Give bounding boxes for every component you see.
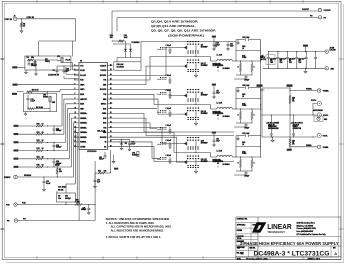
connector J13 VOSNS-: [318, 145, 330, 149]
ground snubber phase 1: [237, 40, 240, 45]
svg-text:C29 10uF: C29 10uF: [280, 59, 286, 61]
wire FCB to IC: [64, 76, 79, 79]
svg-text:35V: 35V: [280, 60, 283, 62]
wire IC bottom to D2: [110, 139, 130, 142]
resistor R26 1k: [236, 142, 261, 146]
svg-text:10: 10: [42, 156, 44, 158]
svg-text:J1: J1: [14, 15, 16, 17]
notes heading: [106, 217, 170, 221]
svg-text:SENSE2-: SENSE2-: [80, 127, 87, 129]
svg-text:R27: R27: [242, 55, 245, 57]
svg-text:BG3: BG3: [103, 123, 106, 125]
ground snubber phase 3: [237, 136, 240, 141]
svg-text:Si7960DP: Si7960DP: [201, 161, 208, 163]
capacitor C9 VCC bypass: [53, 68, 59, 75]
wire bundle lower gates: [113, 109, 235, 162]
capacitor C21 snubber: [236, 133, 261, 157]
capacitor C across SENSE3+: [53, 158, 62, 167]
wire sense feedback phase 3: [234, 171, 246, 175]
svg-text:R14: R14: [37, 155, 40, 158]
svg-text:Q6 Q8: Q6 Q8: [201, 111, 206, 113]
svg-text:TG3: TG3: [103, 127, 106, 129]
connector J5 VIN: [325, 48, 336, 54]
inductor L3 1uH: [213, 150, 233, 163]
wire 5V node A: [112, 40, 126, 48]
dwg no text: [250, 248, 330, 258]
svg-text:R10: R10: [37, 124, 40, 126]
connector J9 VOUT+: [311, 100, 324, 112]
note line 4: [106, 236, 161, 239]
svg-text:CLKOUT: CLKOUT: [302, 9, 310, 11]
svg-text:2. INSTALL SHUNTS FOR JP1-JP7: 2. INSTALL SHUNTS FOR JP1-JP7 PIN 2 AND …: [106, 236, 161, 239]
svg-text:VOUT+: VOUT+: [311, 100, 316, 102]
svg-text:RUN/SS: RUN/SS: [80, 142, 86, 144]
wire sense feedback phase 2: [234, 123, 246, 127]
svg-text:10uF: 10uF: [131, 144, 135, 146]
svg-text:1000pF: 1000pF: [65, 198, 71, 200]
wire phase 1 SW drop: [211, 57, 217, 62]
svg-text:R3: R3: [27, 57, 29, 59]
svg-text:10k: 10k: [104, 170, 107, 172]
svg-text:R11: R11: [37, 132, 40, 134]
svg-text:C35: C35: [230, 44, 233, 46]
svg-text:TG1: TG1: [103, 80, 106, 82]
svg-text:C31 10uF: C31 10uF: [298, 59, 304, 61]
svg-text:CLKOUT: CLKOUT: [324, 10, 332, 12]
svg-text:TDK: TDK: [289, 62, 292, 64]
connector J2 RUN/SS: [4, 175, 17, 179]
capacitor output bank left: [266, 115, 280, 137]
svg-text:JP1: JP1: [57, 56, 60, 58]
svg-text:C20 0.1uF: C20 0.1uF: [242, 85, 249, 87]
svg-text:0.1uF: 0.1uF: [46, 183, 50, 185]
svg-text:Si7960DP: Si7960DP: [201, 95, 208, 97]
capacitor C20 snubber: [236, 85, 261, 109]
svg-text:10: 10: [292, 142, 294, 144]
capacitor C16: [128, 139, 135, 148]
svg-text:C13 220pF: C13 220pF: [58, 187, 66, 189]
net label AVP: [114, 168, 118, 170]
inductor L2 1uH: [213, 102, 233, 115]
capacitor output bank right: [291, 115, 303, 137]
resistor R24 10K label: [110, 34, 124, 42]
resistor R3 10k: [27, 57, 34, 61]
resistor R28 0.015 label: [242, 103, 246, 107]
net label VCC freq: [12, 66, 25, 68]
svg-text:1000pF: 1000pF: [56, 147, 62, 149]
svg-text:Phone: (408)432-1900: Phone: (408)432-1900: [297, 227, 316, 230]
svg-text:10k: 10k: [31, 57, 34, 59]
wire PG: [117, 16, 318, 31]
resistor RS1 sense: [238, 61, 242, 75]
ground freq box B: [35, 67, 38, 75]
svg-text:R: R: [238, 163, 239, 165]
svg-text:+C27: +C27: [260, 56, 264, 58]
connector J8 VOSNS+: [318, 89, 330, 93]
capacitor input bank: [260, 51, 325, 69]
resistor R24 1k: [236, 45, 261, 50]
ground VIN rail stub: [214, 42, 217, 48]
svg-text:VOUT+: VOUT+: [323, 115, 328, 117]
svg-text:C28 10uF: C28 10uF: [270, 59, 276, 61]
svg-text:C16: C16: [56, 145, 59, 147]
net label and resistor row SENSE3+: [14, 155, 70, 159]
svg-text:51: 51: [23, 25, 25, 27]
svg-text:FREQ: FREQ: [45, 61, 50, 63]
svg-text:10uF: 10uF: [216, 44, 220, 46]
svg-text:10: 10: [42, 148, 44, 150]
wire SYNC IN to bus: [17, 18, 76, 19]
svg-text:10: 10: [42, 124, 44, 126]
wire phase 2 output: [232, 108, 261, 109]
connector J6 CLKOUT: [318, 8, 331, 12]
ground below C12: [42, 188, 45, 191]
svg-text:Si7960DP: Si7960DP: [201, 143, 208, 145]
svg-text:TECHNOLOGY: TECHNOLOGY: [267, 230, 285, 234]
resistor R1 51: [21, 19, 26, 30]
svg-text:U2 LT1121: U2 LT1121: [117, 66, 124, 68]
svg-text:VRNG: VRNG: [43, 96, 49, 98]
svg-text:R29: R29: [242, 151, 245, 153]
wire phase 3 SW drop: [211, 153, 217, 158]
svg-text:10uF: 10uF: [216, 140, 220, 142]
svg-text:ALL CAPACITORS ARE IN MICROFAR: ALL CAPACITORS ARE IN MICROFARADS, 0603.: [111, 226, 172, 229]
net label VCC pullup: [55, 164, 59, 166]
ground snubber phase 2: [237, 88, 240, 93]
svg-text:10k: 10k: [59, 171, 62, 173]
wire bus down to PLL circuit: [75, 19, 77, 41]
ground below R1: [20, 30, 23, 33]
ground IC area C: [128, 148, 131, 151]
wire FCB row: [17, 161, 95, 205]
svg-text:5.5V-28V: 5.5V-28V: [330, 49, 336, 51]
component box ITH network: [57, 193, 76, 202]
wire bundle IC left fan: [62, 94, 79, 220]
capacitor C23: [99, 152, 107, 161]
ground IC area A: [112, 155, 115, 163]
wire sense feedback phase 1: [234, 75, 246, 79]
svg-text:10uF: 10uF: [230, 45, 234, 47]
svg-text:C30 10uF: C30 10uF: [289, 59, 295, 61]
transistor pair phase 1 (Q1): [179, 41, 211, 77]
svg-text:PGOOD: PGOOD: [101, 70, 108, 72]
svg-text:1000pF: 1000pF: [244, 80, 249, 82]
svg-text:REV: REV: [333, 248, 336, 250]
jumper JP1 FREQSET: [57, 56, 71, 63]
logo LINEAR text: [267, 222, 292, 234]
capacitor boost bypass clusters: [157, 45, 172, 164]
svg-text:R12: R12: [37, 140, 40, 142]
svg-text:LTC3731CG: LTC3731CG: [87, 151, 97, 153]
svg-text:VOUT-: VOUT-: [323, 136, 328, 138]
logo Linear Technology mark: [252, 222, 266, 232]
connector J14 VIN return: [325, 67, 335, 71]
svg-text:SYNC IN: SYNC IN: [27, 17, 35, 19]
svg-text:Milpitas, CA 95035: Milpitas, CA 95035: [297, 224, 314, 227]
capacitor C17 lower: [94, 173, 101, 185]
range select sub box: [24, 93, 57, 112]
svg-text:TITLE:: TITLE:: [237, 238, 242, 240]
svg-text:DC498A-3 * LTC3731CG: DC498A-3 * LTC3731CG: [254, 251, 330, 258]
transistor pair phase 2 (Q4): [179, 89, 211, 125]
jumper JP6 label: [132, 152, 139, 157]
net label INT FREQ: [45, 59, 50, 63]
svg-text:R28: R28: [242, 103, 245, 105]
svg-text:L1 1uH: L1 1uH: [217, 54, 223, 56]
svg-text:SW1: SW1: [103, 84, 106, 86]
connector J1 SYNC IN: [5, 15, 17, 21]
resistor R29 0.015 label: [242, 151, 246, 155]
svg-text:Q4: Q4: [201, 91, 203, 94]
svg-text:1k: 1k: [242, 96, 244, 98]
wire phase 3 output: [232, 156, 261, 157]
capacitor C19 snubber: [236, 37, 261, 61]
svg-text:R: R: [238, 67, 239, 69]
svg-text:10: 10: [42, 165, 44, 167]
svg-text:10uF: 10uF: [124, 37, 128, 39]
svg-text:C33: C33: [124, 35, 127, 37]
svg-text:C 0.1uF: C 0.1uF: [166, 125, 172, 127]
svg-text:0.015: 0.015: [242, 57, 246, 59]
svg-text:SENSE3-: SENSE3-: [80, 137, 87, 139]
wire VOUT vertical: [289, 87, 290, 148]
net label and resistor row SENSE1-: [14, 132, 64, 135]
capacitor C11 in box: [27, 95, 35, 108]
svg-text:R: R: [238, 115, 239, 117]
wire VOSNS+ line: [289, 89, 317, 91]
inductor L1 1uH: [213, 54, 233, 67]
svg-text:Q1,Q4, Q10 ARE Si7960DP,: Q1,Q4, Q10 ARE Si7960DP,: [151, 20, 198, 24]
svg-text:C: C: [254, 115, 255, 117]
label ILIM wire: [97, 130, 106, 133]
resistor R5 10.0k: [27, 90, 39, 93]
title row: [236, 237, 341, 241]
wire VOSNS- line: [289, 145, 317, 147]
svg-text:C 0.1uF: C 0.1uF: [166, 155, 172, 157]
net label VIN bank: [303, 45, 308, 53]
ground input bank: [304, 68, 307, 73]
svg-text:OS-CON: OS-CON: [260, 59, 266, 61]
title block grid: [236, 217, 341, 260]
wires in freq box: [28, 59, 72, 67]
resistor R27 0.015 label: [242, 55, 246, 59]
capacitor VIN decoupling column: [212, 36, 220, 147]
svg-text:C 0.1uF: C 0.1uF: [166, 140, 172, 142]
wire PLLIN to IC: [71, 63, 79, 70]
capacitor C15 on FCB: [81, 205, 90, 215]
resistor R12 10k: [98, 150, 111, 174]
svg-text:Q3 Q7: Q3 Q7: [201, 63, 206, 65]
address text block: [297, 222, 326, 236]
svg-text:BG2: BG2: [103, 118, 106, 120]
wire into range box: [33, 90, 74, 96]
svg-text:SENSE1-: SENSE1-: [80, 118, 87, 120]
diode D2 B340A: [217, 114, 231, 120]
connector J4 PGOOD: [7, 219, 18, 223]
capacitor C across SENSE2+: [53, 142, 62, 151]
connector J7 PG: [318, 16, 326, 20]
svg-text:SHEET 1 OF 2: SHEET 1 OF 2: [308, 259, 321, 261]
svg-text:R13: R13: [37, 148, 40, 150]
net label and resistor row SENSE1+: [14, 124, 63, 127]
wire VCC rail to IC: [57, 65, 79, 67]
svg-text:C21 0.1uF: C21 0.1uF: [242, 133, 249, 135]
svg-text:Q1: Q1: [201, 44, 203, 46]
diode D1 B340A: [217, 66, 231, 72]
svg-text:1000pF: 1000pF: [81, 209, 86, 211]
svg-text:10: 10: [42, 132, 44, 134]
svg-text:GND: GND: [324, 119, 327, 121]
svg-text:R8 10k: R8 10k: [58, 189, 64, 191]
size cell: [237, 248, 244, 257]
svg-text:35V: 35V: [270, 60, 273, 62]
net label and resistor row SENSE2+: [14, 140, 66, 143]
wire 5V node B: [113, 43, 130, 48]
svg-text:R15: R15: [37, 165, 40, 167]
rev cell: [333, 248, 337, 257]
svg-text:RUN/SS: RUN/SS: [4, 177, 11, 179]
svg-text:C18: C18: [56, 161, 59, 163]
connector J10 VOUT+ 2: [317, 113, 328, 117]
capacitor C8 1000pF: [28, 60, 37, 67]
svg-text:R27: R27: [292, 140, 295, 142]
svg-text:R20: R20: [76, 200, 79, 202]
dwg row grid: [236, 246, 341, 257]
svg-text:10uF: 10uF: [216, 92, 220, 94]
svg-text:1000pF: 1000pF: [244, 176, 249, 178]
wire PLLLPF to IC: [48, 67, 79, 77]
svg-text:35V: 35V: [289, 60, 292, 62]
svg-text:SYNC IN: SYNC IN: [5, 19, 13, 21]
ground IC area B: [120, 147, 123, 150]
wire phase 2 SW drop: [211, 105, 217, 110]
svg-text:Si7960DP: Si7960DP: [201, 47, 208, 49]
svg-text:1uF: 1uF: [97, 182, 100, 184]
wire VIN rail top: [141, 41, 236, 58]
wire ITH to IC: [66, 184, 75, 205]
wire phase 1 output: [232, 60, 261, 61]
svg-text:VOSNS+: VOSNS+: [306, 89, 312, 91]
net label VCC left: [12, 92, 24, 95]
svg-text:L3 1uH: L3 1uH: [217, 150, 223, 152]
svg-text:1uF: 1uF: [66, 70, 69, 72]
ground below C17: [94, 185, 97, 188]
wire VOUT- bus: [262, 136, 317, 137]
svg-text:TDK: TDK: [280, 62, 283, 64]
svg-text:BOOST3: BOOST3: [100, 137, 107, 139]
note text transistor types: [151, 20, 216, 38]
capacitor CS1 sense: [241, 75, 253, 82]
frequency select sub box: [25, 56, 71, 70]
wire output rail: [260, 41, 264, 152]
svg-text:J5 VIN: J5 VIN: [330, 48, 335, 50]
svg-text:1k: 1k: [242, 144, 244, 146]
svg-text:VOSNS+: VOSNS+: [323, 91, 329, 93]
capacitor C13 ITH: [57, 187, 66, 194]
svg-text:10: 10: [292, 99, 294, 101]
svg-text:C: C: [254, 163, 255, 165]
wire VOUT+ bus: [261, 114, 316, 115]
capacitor CS2 sense: [241, 123, 253, 130]
label U1 value: [87, 151, 97, 153]
regulator 5V sub box: [114, 62, 141, 70]
wire CLKOUT: [112, 9, 318, 34]
svg-text:BG1: BG1: [103, 108, 106, 110]
svg-text:Q10: Q10: [201, 140, 204, 142]
svg-text:1. ALL RESISTORS ARE IN OHMS,: 1. ALL RESISTORS ARE IN OHMS, 0603.: [106, 222, 155, 225]
svg-text:C23: C23: [99, 157, 102, 159]
svg-text:1000pF: 1000pF: [56, 130, 62, 132]
svg-text:Q3, Q6, Q7, Q8, Q9, Q12 ARE Si: Q3, Q6, Q7, Q8, Q9, Q12 ARE Si7960DP.: [151, 29, 216, 33]
svg-text:DRVCC: DRVCC: [101, 104, 107, 106]
svg-text:1000pF: 1000pF: [244, 128, 249, 130]
net label VOUT+ top: [287, 84, 293, 86]
svg-text:C26: C26: [83, 207, 86, 209]
svg-text:Si7960DP: Si7960DP: [201, 113, 208, 115]
svg-text:SIZE: SIZE: [237, 248, 240, 250]
note line 1: [106, 222, 155, 225]
resistor R25 1k: [236, 94, 261, 98]
svg-text:GRP1: GRP1: [80, 84, 84, 86]
svg-text:(SO8-POWERPAK): (SO8-POWERPAK): [168, 33, 204, 37]
note line 2: [111, 226, 172, 229]
svg-text:C 0.1uF: C 0.1uF: [166, 90, 172, 92]
svg-text:C14: C14: [58, 197, 61, 200]
svg-text:Fax: (408)434-0507: Fax: (408)434-0507: [297, 230, 314, 233]
svg-text:SENSE3+: SENSE3+: [80, 132, 87, 134]
connector J11 VOUT-: [317, 133, 328, 137]
diode D3 B340A: [217, 162, 231, 168]
svg-text:Q2,Q5,Q11 ARE OPTIONAL,: Q2,Q5,Q11 ARE OPTIONAL,: [151, 24, 196, 28]
svg-text:RUN/SS: RUN/SS: [24, 175, 32, 177]
svg-text:CLK/SYNC IN: CLK/SYNC IN: [48, 75, 60, 77]
op-amp controller U1 LTC3731CG: [74, 61, 113, 150]
svg-text:A: A: [334, 251, 337, 256]
svg-text:SENSE1+: SENSE1+: [80, 113, 87, 115]
capacitor C12 soft start: [43, 177, 51, 188]
svg-text:C 0.1uF: C 0.1uF: [166, 75, 172, 77]
svg-text:1630 McCarthy Blvd.: 1630 McCarthy Blvd.: [297, 222, 316, 225]
resistor R27: [289, 139, 295, 146]
diode D1 dual schottky: [124, 41, 140, 51]
svg-text:EEFUE0G181R: EEFUE0G181R: [268, 128, 280, 130]
svg-text:R25: R25: [242, 94, 245, 96]
net label and resistor row SENSE3-: [14, 165, 72, 168]
connector J3 FCB: [6, 203, 17, 207]
svg-text:C19 0.1uF: C19 0.1uF: [242, 37, 249, 39]
svg-text:CLKOUT: CLKOUT: [100, 65, 106, 67]
svg-text:BOOST1: BOOST1: [100, 75, 107, 77]
resistor RS5 sense: [238, 157, 242, 171]
svg-text:C11: C11: [216, 91, 219, 93]
resistor RS2 sense: [251, 61, 255, 75]
svg-text:C12: C12: [216, 139, 219, 141]
svg-text:BOOST2: BOOST2: [100, 89, 107, 91]
svg-text:L2 1uH: L2 1uH: [217, 102, 223, 104]
svg-text:10: 10: [42, 140, 44, 142]
net label VOS: [287, 149, 292, 151]
svg-text:C: C: [254, 67, 255, 69]
svg-text:0.01uF: 0.01uF: [99, 159, 104, 161]
wire output rail to section: [257, 84, 291, 137]
net label and resistor row SENSE2-: [14, 148, 68, 151]
svg-text:C10: C10: [216, 43, 219, 45]
wires range box: [28, 101, 50, 111]
resistor RS4 sense: [251, 109, 255, 123]
svg-text:GRP2: GRP2: [80, 89, 84, 91]
transistor pair phase 3 (Q10): [179, 137, 211, 173]
svg-text:Q9 Q12: Q9 Q12: [201, 159, 207, 161]
